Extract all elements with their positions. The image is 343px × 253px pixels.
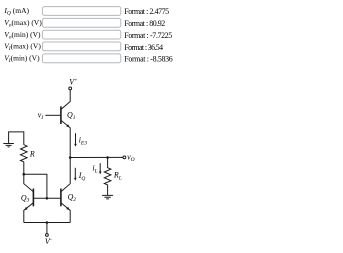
svg-text:Format : 36.54: Format : 36.54 [124,43,163,52]
svg-text:R: R [29,149,35,158]
svg-text:Format : -7.7225: Format : -7.7225 [124,31,172,40]
svg-text:+: + [74,78,77,84]
svg-text:Format : 80.92: Format : 80.92 [124,19,165,28]
svg-text:Format : -8.5836: Format : -8.5836 [124,55,172,64]
svg-text:Format : 2.4775: Format : 2.4775 [124,7,169,16]
svg-text:−: − [49,238,52,244]
